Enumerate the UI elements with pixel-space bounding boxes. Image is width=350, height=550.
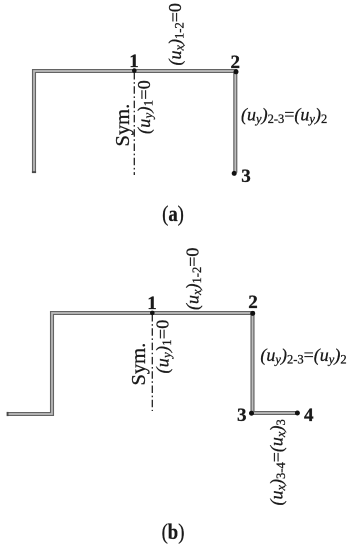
- svg-text:(ux)3-4=(ux)3: (ux)3-4=(ux)3: [267, 419, 289, 505]
- label: caption (b): [162, 521, 185, 545]
- label: (ux)1-2=0 boundary condition on member 1-2 (b), rotated: [183, 248, 205, 310]
- label: (uy)1=0 boundary condition at node 1 (a), rotated: [134, 80, 156, 134]
- svg-text:(ux)1-2=0: (ux)1-2=0: [165, 3, 187, 65]
- svg-text:1: 1: [129, 51, 139, 72]
- symmetry axis (b): vertical dash-dot line through node 1: [151, 314, 153, 411]
- svg-text:(b): (b): [162, 521, 185, 545]
- svg-text:(uy)1=0: (uy)1=0: [134, 80, 156, 134]
- node 4 (b): [295, 411, 300, 416]
- node 3 (b): [249, 411, 254, 416]
- node 2 (a): [234, 69, 239, 74]
- symmetry axis (a): vertical dash-dot line through node 1: [133, 72, 135, 175]
- svg-text:(uy)2-3=(uy)2: (uy)2-3=(uy)2: [260, 345, 346, 367]
- svg-text:3: 3: [237, 405, 247, 426]
- label: Sym. (b), rotated: [128, 343, 150, 386]
- node 2 (b): [250, 311, 255, 316]
- svg-text:Sym.: Sym.: [112, 104, 134, 147]
- label: (ux)1-2=0 boundary condition on member 1-2 (a), rotated: [165, 3, 187, 65]
- wire: frame members of model (b): bottom-left arm, left leg, top beam 1-2, right leg 2-3, bottom arm 3-4 (double line): [7, 313, 298, 416]
- svg-text:(a): (a): [162, 203, 184, 227]
- label: caption (a): [162, 203, 184, 227]
- svg-text:2: 2: [248, 292, 258, 313]
- label: Sym. (a), rotated: [112, 104, 134, 147]
- wire: frame members of model (a): left leg, top beam 1-2, right leg 2-3 (double line): [32, 71, 235, 173]
- node 1 (a): [132, 68, 137, 73]
- svg-text:(uy)1=0: (uy)1=0: [153, 319, 175, 373]
- svg-text:Sym.: Sym.: [128, 343, 150, 386]
- svg-text:(uy)2-3=(uy)2: (uy)2-3=(uy)2: [241, 105, 327, 127]
- node 3 (a): [232, 171, 237, 176]
- svg-text:1: 1: [147, 293, 157, 314]
- label: (uy)1=0 boundary condition at node 1 (b), rotated: [153, 319, 175, 373]
- label: (ux)3-4=(ux)3 boundary condition on member 3-4 (b), rotated: [267, 419, 289, 505]
- svg-text:3: 3: [241, 166, 251, 187]
- svg-text:2: 2: [231, 52, 241, 73]
- node 1 (b): [150, 311, 155, 316]
- svg-text:4: 4: [304, 405, 314, 426]
- svg-text:(ux)1-2=0: (ux)1-2=0: [183, 248, 205, 310]
